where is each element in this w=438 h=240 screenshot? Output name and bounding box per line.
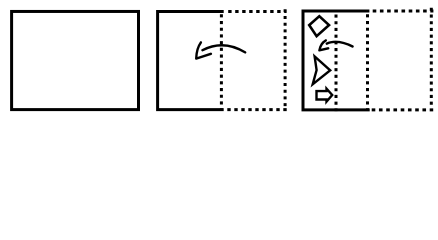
- panel 1 solid rectangle: [12, 11, 139, 109]
- panel 2 dotted rectangle bottom edge: [227, 108, 286, 111]
- hollow right-arrow icon: [317, 89, 333, 102]
- panel 3 curved arrow head: [319, 40, 328, 50]
- panel 3 dotted rectangle bottom edge: [372, 108, 434, 111]
- panel 2 dotted rectangle top edge: [228, 10, 286, 13]
- panel 3 inner dotted divider line: [335, 15, 338, 112]
- panel 2 dotted rectangle right edge: [284, 9, 287, 106]
- panel 2 curved arrow head: [196, 42, 211, 58]
- panel 3 solid rectangle (left part, open right side): [303, 11, 370, 110]
- dart cursor icon: [313, 56, 331, 84]
- panel 3 second dotted divider line: [366, 14, 369, 111]
- panel 3 dotted rectangle top edge: [373, 10, 434, 13]
- panel 3 dotted rectangle right edge: [430, 8, 433, 107]
- diamond icon: [309, 16, 329, 36]
- panel 2 solid rectangle (left part, open right side): [158, 11, 224, 109]
- panel 2 dotted divider line: [220, 14, 223, 111]
- panel 2 curved arrow arc: [203, 45, 246, 52]
- panel 3 curved arrow arc: [327, 42, 353, 47]
